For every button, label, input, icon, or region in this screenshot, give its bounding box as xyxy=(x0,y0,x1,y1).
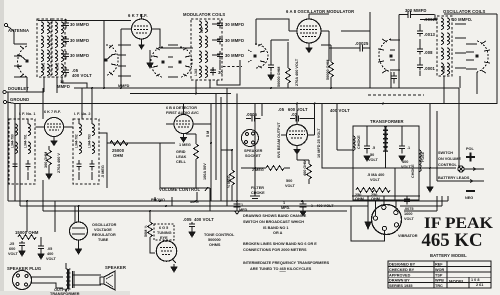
svg-text:MEG: MEG xyxy=(190,200,199,204)
model cell line xyxy=(447,277,491,288)
switch symbol xyxy=(458,166,484,172)
svg-text:VOLT: VOLT xyxy=(8,252,19,256)
capacitor .05 400 volt xyxy=(38,237,44,252)
tube 6A8 V2 xyxy=(289,14,329,53)
svg-text:500000: 500000 xyxy=(208,238,221,242)
wire bus y88 xyxy=(74,87,459,89)
svg-text:WOR: WOR xyxy=(435,268,445,272)
svg-text:400: 400 xyxy=(47,252,53,256)
svg-text:465 KC: 465 KC xyxy=(422,231,483,251)
svg-text:L350: L350 xyxy=(442,66,446,73)
wire IF2 out xyxy=(92,88,132,188)
choke winding right edge xyxy=(419,150,421,172)
choke winding left edge xyxy=(353,136,355,150)
svg-text:I. F. No. 2: I. F. No. 2 xyxy=(74,112,90,116)
capacitor .0001 xyxy=(417,62,423,71)
svg-text:POL: POL xyxy=(466,147,474,151)
band switch wafer S1c xyxy=(151,47,164,77)
RF coil windings xyxy=(55,22,63,75)
svg-text:OSCILLATOR COILS: OSCILLATOR COILS xyxy=(443,9,485,14)
svg-text:CHOKE: CHOKE xyxy=(251,191,265,195)
svg-text:CONTROL: CONTROL xyxy=(438,163,457,167)
svg-text:100A 50V: 100A 50V xyxy=(203,163,207,180)
svg-text:FUSE: FUSE xyxy=(421,151,425,162)
svg-text:OHM: OHM xyxy=(113,153,123,158)
svg-text:.005 400 VOLT: .005 400 VOLT xyxy=(183,217,214,222)
output transformer xyxy=(66,263,74,292)
wire verticals mid xyxy=(15,88,82,201)
volume control pot xyxy=(200,187,210,191)
svg-text:L344-793: L344-793 xyxy=(88,134,92,148)
wire bus y93.5 xyxy=(130,93,231,95)
tube 6B8 V4 xyxy=(166,115,201,143)
svg-text:LEAK: LEAK xyxy=(176,155,187,159)
capacitor 300 mmfd xyxy=(399,11,435,88)
tube 6K7 IF V3 xyxy=(36,118,74,146)
svg-text:400 VOLT: 400 VOLT xyxy=(330,108,350,113)
svg-text:½ MEG: ½ MEG xyxy=(227,175,231,188)
wire bus y103.5 xyxy=(15,103,497,105)
speaker plug circle xyxy=(13,271,32,290)
trimmer capacitor C7 xyxy=(217,51,223,60)
svg-text:SOCKET: SOCKET xyxy=(245,154,262,158)
svg-text:L341: L341 xyxy=(42,63,46,70)
resistor 400 ohm xyxy=(307,164,312,179)
capacitor .25 600 volt xyxy=(19,241,25,249)
svg-text:OSCILLATOR: OSCILLATOR xyxy=(92,223,117,227)
svg-text:FILTER: FILTER xyxy=(251,186,264,190)
wires transformer xyxy=(322,104,419,201)
resistor 1/2 meg xyxy=(230,170,235,185)
svg-text:BROKEN LINES SHOW BAND NO 6 OR: BROKEN LINES SHOW BAND NO 6 OR E xyxy=(243,242,317,246)
svg-text:ANTENNA: ANTENNA xyxy=(8,28,29,33)
band switch wafer S1e xyxy=(248,44,268,68)
tube 6K7 RF V1 xyxy=(121,14,160,49)
svg-text:6 K 7 R.F.: 6 K 7 R.F. xyxy=(128,13,148,18)
svg-text:OHM: OHM xyxy=(355,197,364,201)
capacitor 6A8 osc grid xyxy=(268,40,274,72)
svg-text:TUBE: TUBE xyxy=(98,238,109,242)
wires 6A8 xyxy=(256,14,329,61)
svg-text:EYE: EYE xyxy=(160,236,168,240)
svg-text:.05: .05 xyxy=(47,247,52,251)
svg-text:10 MFD 25 VOLT: 10 MFD 25 VOLT xyxy=(317,128,321,158)
svg-text:30: 30 xyxy=(218,70,223,75)
svg-text:300 OHM: 300 OHM xyxy=(44,152,48,168)
svg-text:MFD.: MFD. xyxy=(239,208,248,212)
band switch wafer S2a xyxy=(378,39,392,73)
svg-text:.0001: .0001 xyxy=(424,66,436,71)
svg-text:INTERMEDIATE FREQUENCY TRANSFO: INTERMEDIATE FREQUENCY TRANSFORMERS xyxy=(243,261,330,265)
svg-text:IF PEAK: IF PEAK xyxy=(424,215,494,232)
svg-text:.1: .1 xyxy=(407,146,410,150)
cathode resistor ground xyxy=(149,50,151,60)
svg-text:WPB: WPB xyxy=(435,279,444,283)
svg-text:2 MEG: 2 MEG xyxy=(252,168,264,172)
svg-text:15000 OHM: 15000 OHM xyxy=(15,230,39,235)
band switch wafer S1b xyxy=(105,45,118,75)
svg-text:GRID: GRID xyxy=(176,150,186,154)
ground battery xyxy=(427,184,433,192)
svg-text:CONNECTIONS FOR 2000 METERS: CONNECTIONS FOR 2000 METERS xyxy=(243,248,307,252)
band switch wafer S2b xyxy=(476,41,490,73)
svg-text:50000 OHM: 50000 OHM xyxy=(277,67,281,87)
scan gray left edge xyxy=(0,0,4,295)
resistor 300 ohm cathode xyxy=(47,150,52,165)
antenna terminal xyxy=(4,23,14,44)
wires modulator section xyxy=(168,24,240,93)
svg-text:CHOKE: CHOKE xyxy=(357,135,361,149)
resistor 25000 ohm xyxy=(110,141,128,146)
RF coil box L2 (dashed) xyxy=(52,19,65,77)
svg-text:6 B 8 DETECTOR: 6 B 8 DETECTOR xyxy=(166,106,197,110)
svg-text:BATTERY MODEL: BATTERY MODEL xyxy=(430,253,467,258)
IF1 windings and caps xyxy=(15,124,30,153)
bottom bus wires xyxy=(8,92,448,232)
ground hatched left of vibrator xyxy=(250,196,260,201)
part number texts in coil boxes xyxy=(11,27,447,148)
resistor 15000 ohm xyxy=(18,235,36,240)
wire xyxy=(256,19,331,88)
svg-text:REF: REF xyxy=(435,263,443,267)
tuning eye tube xyxy=(156,240,176,263)
title block table xyxy=(388,261,491,288)
wire fuse to switch xyxy=(419,88,459,184)
svg-text:30 MMFD: 30 MMFD xyxy=(70,53,89,58)
trimmer capacitor C6 xyxy=(217,36,223,45)
ground tuning eye xyxy=(171,264,177,272)
oscillator coils box (dashed) xyxy=(437,16,452,76)
resistor 250 ohm 2 xyxy=(372,188,390,193)
speaker horn xyxy=(100,271,115,290)
svg-text:TRC: TRC xyxy=(435,284,443,288)
svg-text:30 MMFD: 30 MMFD xyxy=(225,53,244,58)
trimmer capacitor C5 xyxy=(217,20,223,29)
svg-text:30 MMFD: 30 MMFD xyxy=(225,38,244,43)
svg-text:DESIGNED BY: DESIGNED BY xyxy=(389,263,416,267)
svg-text:.5 MA 400: .5 MA 400 xyxy=(367,173,384,177)
svg-text:OHM: OHM xyxy=(371,197,380,201)
IF transformer 2 box (dashed) xyxy=(73,119,99,184)
speaker socket circle xyxy=(242,130,259,147)
svg-text:L20: L20 xyxy=(200,27,204,33)
svg-text:DRAWN BY: DRAWN BY xyxy=(389,279,410,283)
oscillator coil windings xyxy=(441,18,449,74)
svg-text:I. F. No. 1: I. F. No. 1 xyxy=(19,112,35,116)
minus symbol xyxy=(466,190,475,192)
wire to speaker xyxy=(73,275,101,285)
svg-text:TSP: TSP xyxy=(435,273,443,277)
svg-text:VOLUME CONTROL: VOLUME CONTROL xyxy=(159,187,201,192)
svg-text:270A 400 V: 270A 400 V xyxy=(57,153,61,173)
svg-text:CHOKE: CHOKE xyxy=(411,164,415,178)
capacitor 1 MFD (left) xyxy=(234,201,241,214)
svg-text:30 MMFD: 30 MMFD xyxy=(225,22,244,27)
svg-text:400: 400 xyxy=(402,160,408,164)
doublet terminal xyxy=(3,80,44,94)
battery lead arrow xyxy=(437,111,484,183)
svg-text:6 G 5: 6 G 5 xyxy=(159,226,168,230)
ground .05 cap xyxy=(38,251,44,259)
svg-text:OHMS: OHMS xyxy=(209,243,221,247)
svg-text:VOLT: VOLT xyxy=(370,178,381,182)
capacitor .00025 grid osc xyxy=(348,45,368,52)
svg-text:400 VOLT: 400 VOLT xyxy=(72,73,92,78)
wire plug to transformer xyxy=(31,277,63,288)
transformer winding xyxy=(383,126,388,168)
wire top-left bus xyxy=(14,19,131,93)
wires oscillator section xyxy=(368,14,497,104)
capacitor .02 plate 6V6 xyxy=(290,116,305,122)
antenna coil box L1 (dashed) xyxy=(37,19,51,77)
svg-text:MODULATOR COILS: MODULATOR COILS xyxy=(183,12,225,17)
capacitor .005 400 volt xyxy=(189,222,195,230)
svg-text:1: 1 xyxy=(283,201,285,205)
plus symbol xyxy=(466,153,475,162)
svg-text:30 MMFD: 30 MMFD xyxy=(70,38,89,43)
svg-text:MMFD: MMFD xyxy=(57,84,70,89)
capacitor .1 400 VOLT xyxy=(399,140,405,161)
ground 6K7 IF cathode xyxy=(46,171,52,179)
capacitor .008 xyxy=(417,46,423,55)
svg-text:6V6 BEAM OUTPUT: 6V6 BEAM OUTPUT xyxy=(277,122,281,158)
svg-text:SPEAKER: SPEAKER xyxy=(244,149,263,153)
svg-text:GROUND: GROUND xyxy=(10,97,29,102)
svg-text:SWITCH ON BROADCAST WHICH: SWITCH ON BROADCAST WHICH xyxy=(243,220,304,224)
resistor 1 meg grid leak xyxy=(194,144,199,159)
trimmer capacitor C3 xyxy=(63,51,69,60)
svg-text:DRAWING SHOWS BAND CHANGE: DRAWING SHOWS BAND CHANGE xyxy=(243,214,307,218)
wire xyxy=(241,104,290,197)
svg-text:.008: .008 xyxy=(424,50,433,55)
svg-text:6 A 8 OSCILLATOR MODULATOR: 6 A 8 OSCILLATOR MODULATOR xyxy=(286,9,354,14)
wire 6B8 xyxy=(184,88,238,211)
svg-text:OR A: OR A xyxy=(273,231,283,235)
IF transformer 1 box (dashed) xyxy=(9,119,35,184)
svg-text:CHECKED BY: CHECKED BY xyxy=(389,268,415,272)
svg-text:L343: L343 xyxy=(194,69,198,76)
svg-text:.0005: .0005 xyxy=(246,112,258,117)
IF2 windings xyxy=(79,124,94,153)
svg-text:30 MMFD: 30 MMFD xyxy=(70,22,89,27)
svg-text:SERIES 1935: SERIES 1935 xyxy=(389,284,412,288)
svg-text:1 MEG: 1 MEG xyxy=(179,143,191,147)
svg-text:270A 400 VOLT: 270A 400 VOLT xyxy=(295,58,299,86)
svg-text:VOLTAGE: VOLTAGE xyxy=(94,228,112,232)
svg-text:SPEAKER: SPEAKER xyxy=(105,265,126,270)
wire xyxy=(221,150,232,201)
svg-text:MODEL: MODEL xyxy=(449,279,465,284)
capacitor C4 .05 400 VOLT xyxy=(63,67,69,77)
svg-text:.0075: .0075 xyxy=(404,207,414,211)
svg-text:600: 600 xyxy=(9,247,15,251)
wire tuning eye xyxy=(150,211,166,253)
svg-text:.25: .25 xyxy=(9,242,14,246)
svg-text:L344-791: L344-791 xyxy=(24,134,28,148)
svg-text:.5: .5 xyxy=(372,146,375,150)
capacitor .0005 plate xyxy=(246,116,261,122)
svg-text:1 0 8: 1 0 8 xyxy=(471,278,479,282)
svg-text:1: 1 xyxy=(241,203,243,207)
svg-text:.05 600 VOLT: .05 600 VOLT xyxy=(278,107,308,112)
vibrator circle xyxy=(372,205,402,235)
svg-text:1600: 1600 xyxy=(404,212,412,216)
regulator tube circle xyxy=(70,206,88,246)
svg-text:50000 OHM: 50000 OHM xyxy=(326,60,330,80)
note text block xyxy=(243,214,330,271)
svg-text:L344-792: L344-792 xyxy=(75,134,79,148)
resistor 50M vertical xyxy=(148,222,153,237)
resistor 250 ohm 1 xyxy=(356,188,374,193)
svg-text:400 OHM: 400 OHM xyxy=(303,160,307,176)
wire + ground xyxy=(48,146,50,171)
power transformer box xyxy=(353,126,419,200)
band switch wafer S1d xyxy=(179,47,192,77)
svg-text:VIBRATOR: VIBRATOR xyxy=(398,234,418,238)
svg-text:ARE TUNED TO 465 KILOCYCLES: ARE TUNED TO 465 KILOCYCLES xyxy=(250,267,312,271)
svg-text:2 61: 2 61 xyxy=(476,283,483,287)
resistor 2 meg xyxy=(266,166,284,171)
table texts xyxy=(389,263,483,289)
capacitor 1 MFD (right) xyxy=(300,201,307,216)
svg-text:APPROVED: APPROVED xyxy=(389,273,411,277)
capacitor .0013 xyxy=(417,28,423,37)
svg-text:500: 500 xyxy=(286,179,292,183)
trimmer capacitor C8 xyxy=(210,67,216,76)
capacitor 8075 1600 volt xyxy=(404,196,410,205)
svg-text:VOLT: VOLT xyxy=(368,158,379,162)
tube 6V6 output V5 xyxy=(281,118,315,155)
wire xyxy=(287,42,289,88)
tuning eye box (dashed) xyxy=(154,224,174,240)
svg-text:L342: L342 xyxy=(56,63,60,70)
svg-text:PHONO: PHONO xyxy=(151,198,165,202)
wire xyxy=(297,104,315,165)
svg-text:ON VOLUME: ON VOLUME xyxy=(438,157,461,161)
resistor 50000 ohm xyxy=(286,68,291,83)
svg-text:VOLT: VOLT xyxy=(404,217,415,221)
wire vibrator top xyxy=(351,196,420,241)
svg-text:.00025: .00025 xyxy=(355,41,369,46)
wire xyxy=(128,143,200,188)
svg-text:.0013: .0013 xyxy=(424,32,436,37)
svg-text:CELL: CELL xyxy=(176,160,187,164)
IF1 trimmer caps xyxy=(13,119,31,180)
svg-text:TUNING: TUNING xyxy=(157,231,172,235)
svg-text:VOLT: VOLT xyxy=(285,184,296,188)
svg-text:.5 MEG: .5 MEG xyxy=(101,165,105,178)
svg-text:VOLT: VOLT xyxy=(46,257,57,261)
svg-text:5 M: 5 M xyxy=(206,131,210,137)
wire + ground xyxy=(308,179,310,184)
svg-text:DOUBLET: DOUBLET xyxy=(8,86,29,91)
svg-text:6 K 7 R.F.: 6 K 7 R.F. xyxy=(44,110,61,114)
wire to osc coils xyxy=(329,12,370,88)
svg-text:TONE CONTROL: TONE CONTROL xyxy=(204,233,235,237)
svg-text:BATTERY LEADS: BATTERY LEADS xyxy=(438,176,470,180)
resistor 50000 ohm osc xyxy=(329,62,334,77)
svg-text:50M ⅓: 50M ⅓ xyxy=(144,225,148,237)
svg-text:L344-790: L344-790 xyxy=(11,134,15,148)
ground arrow left of vibrator xyxy=(365,222,371,229)
capacitor at arc base xyxy=(391,72,397,84)
band switch wafer S1a (dotted arcs) xyxy=(17,46,28,81)
capacitor .5 50 VOLT xyxy=(364,140,370,161)
antenna coil windings xyxy=(41,22,49,75)
modulator coil windings xyxy=(199,21,207,77)
wire plate 6K7 xyxy=(104,21,168,89)
svg-text:50: 50 xyxy=(370,153,374,157)
ground .005 xyxy=(189,229,195,237)
ground 6A8 cap xyxy=(268,72,274,80)
ground below 6K7 xyxy=(147,60,153,68)
svg-text:λ 400 VOLT: λ 400 VOLT xyxy=(311,204,334,208)
IF2 trimmer caps xyxy=(77,119,95,180)
svg-text:10 MMFD.: 10 MMFD. xyxy=(452,17,472,22)
svg-text:30: 30 xyxy=(211,68,215,72)
trimmer capacitor C1 xyxy=(63,20,69,29)
svg-text:SWITCH: SWITCH xyxy=(438,151,453,155)
svg-text:MFD.: MFD. xyxy=(281,206,290,210)
svg-text:REGULATOR: REGULATOR xyxy=(92,233,116,237)
ground .25 cap xyxy=(19,248,25,256)
main bus wires xyxy=(15,88,497,201)
svg-text:TRANSFORMER: TRANSFORMER xyxy=(370,119,404,124)
trimmer capacitor C2 xyxy=(63,36,69,45)
ground regulator xyxy=(76,246,82,254)
ground terminal xyxy=(3,100,15,103)
modulator coils box (dashed) xyxy=(191,19,222,80)
svg-text:IS BAND NO 1: IS BAND NO 1 xyxy=(263,226,289,230)
svg-text:NEG: NEG xyxy=(465,196,473,200)
dashed band link xyxy=(223,66,242,68)
svg-text:MMFD: MMFD xyxy=(118,84,130,88)
